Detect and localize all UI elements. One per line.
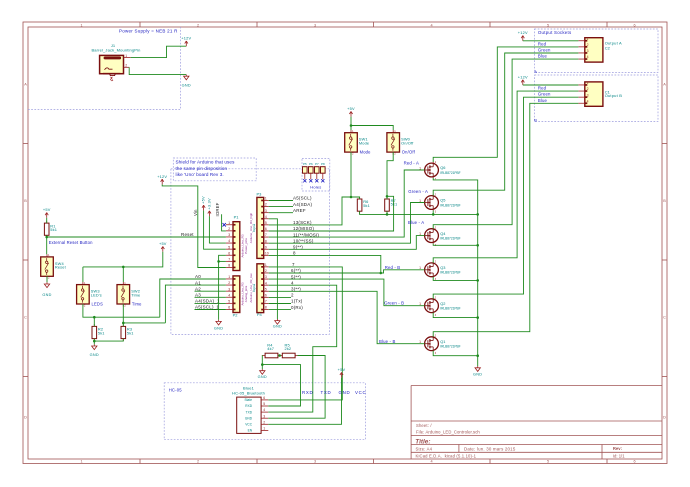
svg-text:5k1: 5k1 [50, 227, 57, 232]
wire 8 net down [269, 255, 381, 273]
svg-text:5k1: 5k1 [363, 203, 370, 208]
svg-text:1: 1 [587, 81, 589, 85]
power +12V shield [157, 174, 167, 185]
transistor Q1 [419, 335, 461, 355]
wire R1 to SW4 [46, 235, 48, 254]
svg-text:7: 7 [228, 257, 230, 261]
svg-text:On/Off: On/Off [402, 150, 416, 155]
svg-text:Barrel_Jack_MountingPin: Barrel_Jack_MountingPin [91, 47, 140, 52]
wire Q1 source [433, 351, 478, 356]
wire source bus to GND [433, 178, 478, 366]
wire to R2 [93, 317, 95, 326]
wire Q3 drain Red-B to C1 pin2 [433, 91, 578, 263]
wire to SW3 top [82, 267, 84, 282]
wire 9 to Q4 gate [269, 236, 425, 250]
note box shield comment [173, 158, 256, 181]
connector J1 barrel jack [91, 43, 140, 81]
junction node 8 and 6 [380, 272, 383, 275]
ground R4 [258, 369, 267, 379]
wire R6 gnd rail [360, 211, 478, 214]
svg-text:1: 1 [587, 37, 589, 41]
svg-text:RXD: RXD [302, 390, 313, 395]
wire P1 gnd to symbol [219, 255, 226, 319]
svg-text:1: 1 [228, 221, 230, 225]
wire +12V to C2 pin1 [523, 40, 579, 42]
svg-text:C2: C2 [605, 45, 611, 50]
wire Q3 source [433, 277, 478, 281]
wire IOREF stub [222, 214, 226, 231]
svg-text:GND: GND [182, 83, 191, 87]
note box output A [535, 29, 659, 72]
svg-text:A0: A0 [195, 274, 201, 279]
svg-text:5: 5 [263, 402, 265, 406]
junction node SW2 top [122, 266, 125, 269]
svg-text:3: 3 [263, 414, 265, 418]
svg-text:AREF: AREF [293, 208, 306, 213]
svg-text:Q6: Q6 [440, 165, 445, 170]
svg-text:IOREF: IOREF [215, 202, 220, 216]
wire 7 to HC-05 State [268, 267, 342, 400]
switch SW4 [41, 253, 67, 280]
wire SW3 to A0 run [83, 304, 160, 317]
svg-text:6(**): 6(**) [291, 268, 301, 273]
svg-text:4: 4 [265, 215, 267, 219]
svg-text:GND: GND [339, 390, 351, 395]
junction node P1 gnd [217, 260, 220, 263]
note box output B [535, 75, 659, 122]
power +5V R1 [43, 207, 51, 218]
svg-text:HC-05: HC-05 [169, 388, 183, 393]
wire AREF stub [269, 212, 293, 214]
wire +5V to R1 [46, 218, 48, 223]
svg-text:5: 5 [265, 287, 267, 291]
svg-text:Red - B: Red - B [385, 265, 401, 270]
svg-text:+12V: +12V [518, 30, 528, 35]
wire SW1 bottom [350, 152, 352, 197]
power +5V P1 [201, 196, 206, 210]
switch SW2 [117, 281, 142, 308]
resistor R1 [44, 221, 57, 238]
svg-text:1: 1 [263, 427, 265, 431]
svg-text:like 'Uno' board Rev 3.: like 'Uno' board Rev 3. [176, 172, 224, 177]
transistor Q6 [419, 161, 461, 181]
wire 6 to Q3 gate Red-B [269, 270, 425, 273]
transistor Q4 [419, 226, 461, 246]
note box holes [302, 158, 330, 191]
svg-text:Blue: Blue [538, 54, 548, 59]
frame column numbers top [80, 23, 635, 27]
svg-text:2: 2 [587, 87, 589, 91]
svg-text:1: 1 [80, 23, 82, 27]
wire R2 to GND [93, 339, 95, 345]
wire 13(SCK) to SW1 [269, 197, 351, 225]
svg-text:GND: GND [245, 416, 253, 420]
svg-text:P2: P2 [233, 312, 239, 317]
wire +5V to SW1 [350, 117, 352, 131]
wire RXD to divider [262, 365, 300, 406]
connector P1 [226, 214, 240, 270]
svg-text:Holes: Holes [310, 185, 321, 190]
wire +5V rail to SW3 [83, 252, 163, 267]
svg-text:4: 4 [228, 293, 230, 297]
power +12V output B [518, 74, 528, 85]
svg-text:B: B [534, 117, 537, 122]
svg-text:2: 2 [263, 420, 265, 424]
svg-text:Q4: Q4 [440, 231, 446, 236]
svg-text:A5(SCL)_1: A5(SCL)_1 [195, 305, 219, 310]
svg-text:Date: lun. 30 mars 2015: Date: lun. 30 mars 2015 [464, 446, 516, 451]
connector C2 [578, 37, 610, 62]
svg-text:3: 3 [228, 233, 230, 237]
svg-text:+5V: +5V [338, 367, 346, 372]
svg-text:Q1: Q1 [440, 339, 445, 344]
svg-text:Q3: Q3 [440, 265, 445, 270]
svg-text:13(SCK): 13(SCK) [293, 220, 312, 225]
svg-text:P1: P1 [234, 214, 240, 219]
svg-text:+3.3V: +3.3V [207, 198, 212, 209]
svg-text:+12V: +12V [181, 36, 191, 41]
svg-text:D: D [24, 416, 27, 420]
frame row letters right [663, 83, 666, 420]
power +5V HC-05 [338, 367, 346, 378]
wire to SW2 top [122, 267, 124, 282]
wire 1(Tx) stub [269, 303, 291, 305]
wire HC-05 GND to R5 [268, 356, 325, 419]
svg-text:Sheet: /: Sheet: / [416, 423, 432, 428]
module Blue1 HC-05 [232, 386, 268, 434]
svg-text:Power_pins: Power_pins [244, 238, 248, 254]
svg-text:Green - A: Green - A [408, 189, 428, 194]
junction node R2 R3 gnd [93, 340, 96, 343]
svg-text:Mode: Mode [359, 140, 369, 145]
note box shield outline [171, 169, 330, 335]
svg-text:Green - B: Green - B [384, 301, 404, 306]
svg-text:LEDS: LEDS [92, 301, 104, 306]
ground source bus [473, 366, 482, 376]
svg-text:4: 4 [430, 460, 432, 464]
svg-text:1: 1 [125, 54, 127, 58]
svg-text:1: 1 [228, 275, 230, 279]
svg-text:5(**): 5(**) [291, 274, 301, 279]
svg-text:2: 2 [197, 23, 199, 27]
svg-text:External Reset Button: External Reset Button [49, 240, 93, 245]
power +12V J1 [181, 36, 191, 47]
svg-text:GND: GND [473, 372, 482, 376]
svg-text:4k7: 4k7 [267, 346, 274, 351]
wire A1 run [123, 322, 165, 324]
svg-text:IRLB8721PBF: IRLB8721PBF [440, 171, 460, 175]
wire Q4 source [433, 244, 478, 246]
svg-text:8: 8 [293, 251, 296, 256]
svg-text:2: 2 [291, 293, 294, 298]
frame column numbers bottom [80, 460, 635, 464]
svg-text:6: 6 [633, 460, 635, 464]
svg-text:VCC: VCC [355, 390, 366, 395]
svg-text:Title:: Title: [415, 438, 430, 445]
svg-text:P4: P4 [257, 312, 263, 317]
wire J1 pin1 to +12V [131, 46, 187, 57]
junction node reset button [45, 236, 48, 239]
svg-text:Size: A4: Size: A4 [416, 446, 433, 451]
svg-text:4: 4 [265, 281, 267, 285]
svg-text:4: 4 [587, 55, 589, 59]
power +5V SW1 SW0 [347, 106, 355, 117]
wire P1 pin7 gnd [219, 260, 226, 262]
wire R7 to rail [386, 211, 388, 214]
junction node Q3 source [476, 279, 479, 282]
wire R3 bottom tie [94, 339, 123, 341]
svg-text:KiCad E.D.A. kicad (5.1.10)-1: KiCad E.D.A. kicad (5.1.10)-1 [416, 454, 477, 459]
wire R4 left to GND [261, 356, 263, 370]
power +3.3V P1 [207, 198, 212, 216]
svg-text:A1: A1 [195, 280, 201, 285]
wire J1 pin2 to GND [129, 67, 186, 74]
wire A4(SDA) stub [269, 206, 293, 208]
svg-text:A2: A2 [195, 286, 201, 291]
svg-text:TXD: TXD [321, 390, 332, 395]
svg-text:2: 2 [587, 43, 589, 47]
svg-text:Reset: Reset [181, 232, 194, 237]
svg-text:A4(SDA)_1: A4(SDA)_1 [195, 299, 220, 304]
ground P3 pin4 [273, 319, 282, 329]
svg-text:TXD: TXD [246, 410, 253, 414]
junction node R3 tap [122, 322, 125, 325]
svg-text:IRLB8721PBF: IRLB8721PBF [440, 203, 460, 207]
wire +5V to SW0 [351, 126, 393, 131]
junction node R7 gnd [386, 213, 389, 216]
svg-text:7: 7 [265, 233, 267, 237]
svg-text:Mode: Mode [360, 150, 372, 155]
junction node rail to bus [476, 213, 479, 216]
svg-text:Green: Green [538, 92, 551, 97]
svg-text:0(Rx): 0(Rx) [291, 305, 303, 310]
junction node R2 tap [93, 316, 96, 319]
svg-text:+5V: +5V [347, 106, 355, 111]
wire A4 stub [195, 302, 226, 304]
resistor R3 [121, 324, 134, 341]
svg-text:3: 3 [265, 209, 267, 213]
wire 10 SS to Q5 gate [269, 203, 425, 244]
switch SW0 [387, 129, 416, 156]
wire Q4 drain Blue-A to C2 pin4 [433, 59, 578, 229]
svg-text:8: 8 [265, 239, 267, 243]
svg-text:Time: Time [131, 292, 140, 297]
junction node Q2 source [476, 316, 479, 319]
connector P8 hole [321, 162, 326, 182]
svg-text:1: 1 [265, 263, 267, 267]
svg-text:+12V: +12V [518, 74, 528, 79]
ground P1 [214, 320, 223, 331]
svg-text:Reset: Reset [55, 265, 67, 270]
svg-text:Blue - A: Blue - A [408, 220, 424, 225]
svg-text:Red: Red [538, 41, 547, 46]
wire P1 pin4 to +3.3V [209, 216, 226, 243]
svg-text:Output A: Output A [605, 41, 622, 46]
svg-text:5: 5 [228, 245, 230, 249]
connector P7 hole [315, 162, 320, 182]
svg-text:4: 4 [291, 280, 294, 285]
svg-text:File: Arduino_LED_Controler.sc: File: Arduino_LED_Controler.sch [416, 430, 480, 435]
svg-text:5: 5 [228, 299, 230, 303]
svg-text:D: D [663, 416, 666, 420]
svg-text:Analog_pins: Analog_pins [244, 285, 248, 302]
ground SW4 [42, 282, 51, 296]
svg-text:B: B [24, 199, 27, 203]
svg-text:2: 2 [125, 64, 127, 68]
wire 3 to Q1 gate Blue-B [269, 291, 425, 343]
svg-text:2k2: 2k2 [285, 346, 292, 351]
svg-text:Red: Red [538, 86, 547, 91]
connector P4 [257, 263, 269, 317]
svg-text:RXD: RXD [245, 404, 252, 408]
svg-text:IRLB8721PBF: IRLB8721PBF [440, 307, 460, 311]
svg-text:P7: P7 [315, 162, 319, 166]
svg-text:P3: P3 [257, 192, 263, 197]
svg-text:On/Off: On/Off [401, 140, 414, 145]
wire SW4 to GND [46, 276, 48, 282]
wire A3 stub [195, 296, 226, 298]
svg-text:Vin: Vin [193, 209, 198, 216]
svg-text:5k1: 5k1 [127, 330, 134, 335]
svg-text:11(**/MOSI): 11(**/MOSI) [293, 232, 319, 237]
svg-text:+5V: +5V [159, 241, 167, 246]
transistor Q5 [419, 193, 461, 213]
svg-text:6: 6 [265, 227, 267, 231]
svg-text:A: A [24, 83, 27, 87]
svg-text:4: 4 [263, 408, 265, 412]
resistor R2 [92, 324, 105, 341]
svg-text:1(Tx): 1(Tx) [291, 299, 303, 304]
svg-text:P5: P5 [303, 162, 307, 166]
wire SW2 to R3 [122, 304, 124, 326]
svg-text:7: 7 [292, 262, 295, 267]
svg-text:GND: GND [214, 326, 223, 330]
svg-text:5: 5 [547, 460, 549, 464]
wire +12V to C1 pin1 [523, 84, 579, 86]
resistor R6 [357, 197, 370, 214]
svg-text:+5V: +5V [201, 196, 206, 204]
resistor R5 [280, 343, 298, 358]
junction node R4 R5 [278, 354, 281, 357]
no-connect P1 pin1 [223, 223, 226, 226]
svg-text:GND: GND [258, 375, 267, 379]
frame row letters left [24, 83, 27, 420]
wire 5 to Q2 gate Green-B [269, 279, 425, 306]
svg-text:C: C [663, 316, 666, 320]
wire Reset net [47, 236, 226, 238]
switch SW3 [77, 281, 103, 308]
svg-text:Q2: Q2 [440, 301, 445, 306]
connector P5 hole [303, 162, 308, 182]
svg-text:7: 7 [265, 300, 267, 304]
svg-text:4: 4 [228, 239, 230, 243]
junction node R7 top [386, 195, 389, 198]
junction node SW1 R6 [350, 196, 353, 199]
wire 11 MOSI to Q6 gate [269, 170, 425, 237]
wire Q2 source [433, 313, 478, 318]
svg-text:IRLB8721PBF: IRLB8721PBF [440, 236, 460, 240]
svg-text:Rev:: Rev: [613, 446, 622, 451]
svg-text:+12V: +12V [157, 174, 167, 179]
svg-text:6: 6 [633, 23, 635, 27]
svg-text:HC-05_Bluetooth: HC-05_Bluetooth [232, 390, 265, 395]
svg-text:P8: P8 [321, 162, 325, 166]
svg-text:1: 1 [265, 197, 267, 201]
svg-text:8: 8 [265, 306, 267, 310]
svg-text:5: 5 [547, 23, 549, 27]
svg-text:IRLB8721PBF: IRLB8721PBF [440, 271, 460, 275]
resistor R4 [263, 343, 281, 358]
svg-text:Digital: Digital [252, 224, 256, 233]
svg-text:A5(SCL): A5(SCL) [293, 196, 312, 201]
switch SW1 [345, 129, 371, 156]
junction node Q4 source [476, 244, 479, 247]
svg-text:3: 3 [587, 49, 589, 53]
wire 4 to HC-05 TXD [268, 285, 336, 412]
wire 2 stub [269, 296, 291, 298]
transistor Q2 [419, 297, 461, 317]
svg-text:A: A [663, 83, 666, 87]
svg-text:8: 8 [228, 264, 230, 268]
svg-text:10(**/SS): 10(**/SS) [293, 238, 314, 243]
svg-text:IRLB8721PBF: IRLB8721PBF [440, 345, 460, 349]
svg-text:Green: Green [538, 47, 551, 52]
svg-text:the same pin disposition: the same pin disposition [176, 166, 228, 171]
wire Q6 drain Red-A to C2 pin2 [433, 47, 578, 162]
svg-text:6: 6 [228, 251, 230, 255]
wire 12(MISO) to SW0 [269, 196, 394, 231]
svg-text:2: 2 [265, 269, 267, 273]
svg-text:3: 3 [314, 23, 316, 27]
svg-text:Digital: Digital [252, 284, 256, 293]
svg-text:Blue: Blue [538, 98, 548, 103]
connector P6 hole [309, 162, 314, 182]
connector P3 [257, 192, 269, 259]
svg-text:3: 3 [228, 287, 230, 291]
wire Q5 drain Green-A to C2 pin3 [433, 53, 578, 196]
resistor R7 [385, 197, 398, 214]
wire 0(Rx) stub [269, 309, 291, 311]
svg-text:2: 2 [228, 281, 230, 285]
svg-text:12(MISO): 12(MISO) [293, 226, 314, 231]
svg-text:+5V: +5V [43, 207, 51, 212]
wire P1 pin5 to +5V [204, 210, 226, 249]
svg-text:5: 5 [265, 221, 267, 225]
svg-text:Blue - B: Blue - B [379, 339, 396, 344]
svg-text:A: A [534, 69, 537, 74]
svg-text:2: 2 [197, 460, 199, 464]
wire HC-05 VCC to +5V [268, 378, 341, 425]
wire Q2 drain Green-B to C1 pin3 [433, 97, 578, 299]
wire A5 stub [195, 309, 226, 311]
svg-text:C: C [24, 316, 27, 320]
svg-text:2: 2 [228, 227, 230, 231]
transistor Q3 [419, 261, 461, 281]
connector C1 [578, 81, 610, 106]
svg-text:GND: GND [90, 353, 99, 357]
svg-text:GND: GND [273, 325, 282, 329]
wire A5(SCL) stub [269, 200, 293, 202]
svg-text:Power Supply = NEB 21 R: Power Supply = NEB 21 R [119, 29, 178, 34]
svg-text:Output B: Output B [605, 93, 623, 98]
ground R2 R3 [90, 344, 99, 357]
svg-text:Red - A: Red - A [404, 160, 419, 165]
svg-text:A3: A3 [195, 293, 201, 298]
svg-text:Id: 1/1: Id: 1/1 [613, 454, 625, 459]
svg-text:3: 3 [314, 460, 316, 464]
svg-text:1: 1 [80, 460, 82, 464]
svg-text:6: 6 [228, 306, 230, 310]
